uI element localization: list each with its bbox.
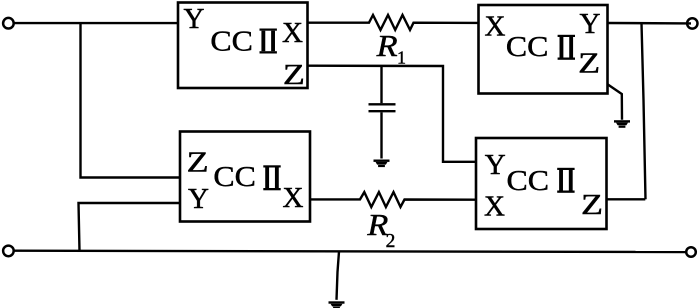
wire: from bottom rail up to Y of U2	[79, 203, 181, 251]
svg-text:CC: CC	[213, 161, 256, 193]
svg-text:Z: Z	[187, 147, 209, 179]
svg-text:Z: Z	[283, 59, 305, 91]
svg-text:CC: CC	[507, 165, 550, 197]
wire top rail left	[14, 22, 178, 24]
op-amp U4 (CCII bottom-right) box	[476, 138, 607, 229]
svg-text:Y: Y	[184, 3, 205, 35]
svg-text:1: 1	[397, 48, 406, 68]
ground below capacitor	[374, 160, 390, 168]
roman numeral II U1	[260, 29, 277, 54]
capacitor C1 plates	[369, 103, 396, 105]
svg-text:X: X	[485, 11, 506, 43]
ground at bottom center	[329, 301, 345, 308]
wire: U1 Z output across to U4 Y input	[308, 66, 477, 162]
roman numeral II U2	[263, 165, 280, 190]
op-amp U1 (CCII top-left) box	[178, 3, 308, 89]
wire: right vertical from top rail down to U4 Z	[642, 23, 646, 199]
terminal IN+ top-left	[3, 18, 14, 29]
wire: U2 X output to R2 to U4 X input	[310, 192, 476, 207]
op-amp U3 (CCII top-right) box	[479, 5, 608, 94]
svg-text:X: X	[484, 191, 505, 223]
svg-text:CC: CC	[506, 31, 549, 63]
svg-text:Y: Y	[188, 183, 209, 215]
svg-text:2: 2	[386, 231, 396, 252]
wire: U3 Z pin to ground	[608, 84, 623, 120]
wire: U3 Y output to terminal	[608, 22, 692, 25]
roman numeral II U3	[558, 35, 575, 60]
ground below U3 Z	[614, 120, 630, 128]
svg-text:X: X	[283, 182, 304, 214]
terminal OUT top-right	[687, 18, 697, 28]
wire: U1 X output to R1 to U3 X input	[308, 15, 479, 30]
capacitor C1 stem top	[380, 66, 382, 103]
terminal bottom-right	[686, 247, 696, 257]
terminal bottom-left	[3, 246, 14, 257]
wire bottom rail	[14, 251, 686, 252]
wire: U4 Z output to right vertical	[607, 198, 646, 200]
svg-text:X: X	[282, 17, 303, 49]
svg-text:CC: CC	[210, 26, 253, 58]
op-amp U2 (CCII bottom-left) box	[180, 132, 310, 222]
svg-text:Z: Z	[581, 189, 603, 221]
svg-text:Y: Y	[580, 8, 601, 40]
capacitor C1 stem bottom	[380, 112, 382, 158]
svg-text:Y: Y	[485, 149, 506, 181]
svg-text:Z: Z	[578, 48, 600, 80]
roman numeral II U4	[557, 168, 574, 193]
wire: bottom rail stem to ground	[337, 252, 340, 300]
svg-text:R: R	[376, 29, 399, 63]
wire: junction vertical to Z of U2	[81, 23, 181, 177]
